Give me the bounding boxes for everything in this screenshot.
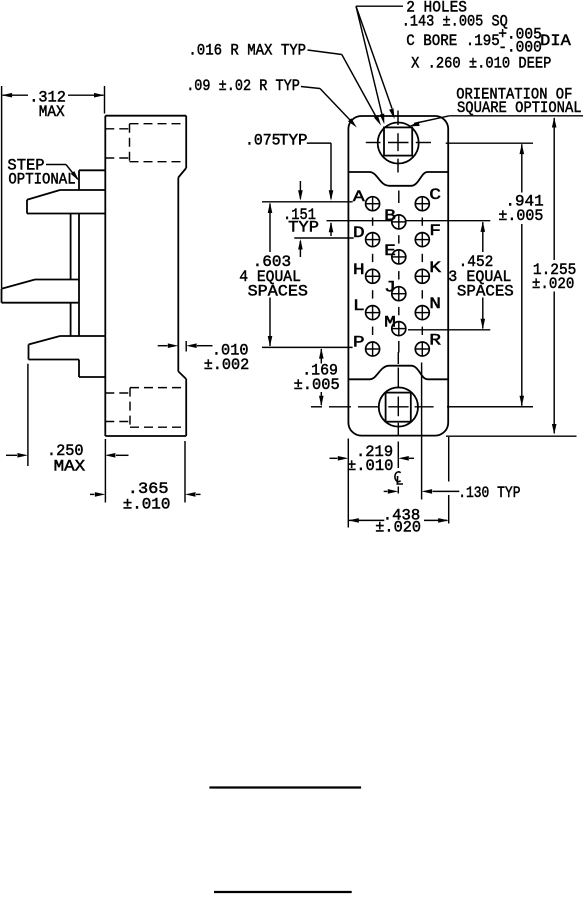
front view: connector body outline [348,116,448,436]
svg-text:TYP: TYP [288,219,319,237]
dimension .169 ±.005 [294,348,340,406]
svg-text:±.002: ±.002 [204,356,250,374]
side view: contact tails between blades [71,214,79,337]
contact J [384,279,406,301]
svg-text:C BORE .195: C BORE .195 [406,32,500,50]
contact R [415,332,441,357]
row extension line D [294,237,353,239]
contact M [384,314,406,336]
svg-text:A: A [353,188,365,206]
svg-text:D: D [353,224,365,242]
svg-text:L: L [353,297,365,315]
svg-text:B: B [384,207,396,225]
side view: mounting step (top) [79,170,105,190]
dimension .250 MAX [6,364,129,476]
svg-text:M: M [384,314,396,332]
side view: contact blade 2 [2,280,80,303]
dimension .219 ±.010 [330,439,415,528]
row extension line M [408,329,490,331]
svg-text:.143 ±.005 SQ: .143 ±.005 SQ [402,13,508,31]
note: .016 R MAX TYP with leader [188,41,381,125]
side view: mounting step (bottom) [79,360,105,378]
contact column dashed centerlines [373,191,423,353]
note: 2 HOLES / .143 SQ / C BORE / DEEP with leaders [356,0,571,124]
svg-text:.075: .075 [245,132,281,150]
contact L [353,297,380,320]
front view: bottom square hole [386,393,411,422]
front view: bottom mounting hole counterbore circle [379,387,418,426]
contact E [384,242,406,264]
svg-text:.016 R MAX TYP: .016 R MAX TYP [188,41,306,59]
svg-text:X .260 ±.010 DEEP: X .260 ±.010 DEEP [411,55,551,73]
dimension .438 ±.020 [348,437,448,537]
svg-text:SQUARE OPTIONAL: SQUARE OPTIONAL [457,99,582,117]
front view: bottom hole crosshair centerlines [311,352,533,468]
front view: top square hole [384,127,412,155]
figure separator line (lower) [214,891,352,893]
dimension .075 TYP [245,132,333,236]
svg-text:P: P [353,334,365,352]
svg-text:DIA: DIA [540,32,571,50]
svg-text:K: K [429,259,441,277]
svg-text:±.005: ±.005 [294,376,340,394]
svg-text:±.005: ±.005 [498,207,543,225]
note: ORIENTATION OF SQUARE OPTIONAL with leader [409,85,582,126]
front view: top mounting hole counterbore circle [378,123,419,164]
figure separator line (upper) [209,786,361,788]
front view: insert face scallop (bottom) [348,366,448,380]
dimension .130 TYP [384,363,521,503]
svg-text:E: E [384,242,396,260]
contact K [415,259,441,284]
front view: insert face scallop (top) [348,172,448,186]
dimension .941 ±.005 [446,143,544,407]
svg-text:±.010: ±.010 [123,496,171,514]
side view: hidden square hole + counterbore (bottom, dashed) [105,388,186,428]
svg-text:.130 TYP: .130 TYP [458,484,520,502]
front view: top hole crosshair centerlines [366,111,431,173]
contact N [415,295,441,320]
dimension .365 ±.010 [90,439,201,514]
side view: connector body outline [105,116,186,436]
svg-text:OPTIONAL: OPTIONAL [8,171,75,189]
svg-text:SPACES: SPACES [457,282,514,300]
svg-text:C: C [429,186,441,204]
contact P [353,334,380,357]
row extension line P [262,346,353,348]
svg-text:J: J [384,279,396,297]
dimension 1.255 ±.020 [446,116,583,436]
row extension line B [327,220,491,222]
svg-text:R: R [429,332,441,350]
dimension .603 / 4 EQUAL SPACES [239,203,308,347]
svg-text:H: H [353,261,365,279]
svg-text:MAX: MAX [54,458,86,476]
note: .09 ±.02 R TYP with leader [186,77,357,127]
contact H [353,261,380,284]
side view: contact blade 1 [27,190,105,214]
svg-text:F: F [429,222,441,240]
svg-text:SPACES: SPACES [248,282,308,300]
contact A [353,188,380,211]
contact B [384,207,406,229]
svg-text:±.020: ±.020 [375,519,421,537]
svg-text:.09 ±.02 R TYP: .09 ±.02 R TYP [186,77,300,95]
centerline symbol [395,472,403,484]
dimension .312 MAX [2,86,105,289]
contact C [415,186,441,211]
row extension line A [262,201,353,203]
contact F [415,222,441,247]
side view: contact blade 3 [29,336,106,360]
label STEP OPTIONAL with leader [7,157,79,189]
svg-text:MAX: MAX [39,103,65,121]
contact D [353,224,380,247]
svg-text:±.020: ±.020 [532,275,575,293]
svg-text:TYP: TYP [279,132,308,150]
svg-text:N: N [429,295,441,313]
dimension .151 TYP [283,181,319,257]
dimension .452 / 3 EQUAL SPACES [448,221,514,329]
svg-text:±.010: ±.010 [347,457,393,475]
dimension .010 ±.002 flange lip [158,341,250,374]
side view: hidden square hole + counterbore (top, dashed) [105,124,186,162]
